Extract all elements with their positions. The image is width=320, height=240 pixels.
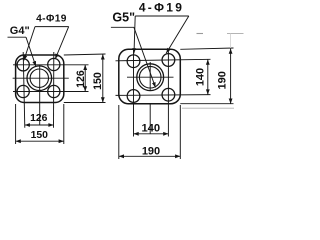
central bore inner circle [30, 69, 48, 87]
faint catalog table rule vertical (right, above 190 dim) [230, 34, 232, 49]
svg-text:190: 190 [142, 146, 160, 158]
extension line bottom edge right to 150 dim [64, 102, 106, 104]
centerline hole row bottom (right flange) [116, 94, 211, 97]
leader to top-left hole [134, 16, 135, 53]
bolt hole bottom-left (right flange) [127, 90, 140, 103]
svg-text:140: 140 [141, 123, 160, 135]
faint catalog table rule horizontal (bottom right) [182, 107, 234, 109]
leader to top-right hole [55, 27, 68, 59]
extension line left edge down to 150 dim [15, 104, 17, 144]
central bore inner circle [139, 66, 161, 88]
dim line 190 vertical (right flange), text at left [230, 49, 232, 104]
svg-text:150: 150 [31, 130, 49, 141]
central centerline vertical, extends down to bottom 126 dim [39, 65, 41, 126]
dim line 126 vertical (left flange) with arrows, text at left [84, 65, 86, 92]
svg-text:G5": G5" [112, 11, 135, 25]
central centerline horizontal (pokes past both edges) [13, 77, 69, 79]
extension line top edge right to 150 dim [64, 54, 106, 55]
centerline hole column right (right flange) [167, 51, 169, 137]
dim line 150 bottom (left flange) [16, 140, 64, 142]
extension line left edge down to 190 dim [118, 105, 120, 159]
bolt hole bottom-right (right flange) [162, 88, 175, 101]
extension line right edge down to 150 dim [63, 104, 65, 144]
bolt hole top-left (left flange) [17, 59, 29, 71]
dim line 190 bottom (right flange) [119, 155, 181, 157]
svg-text:150: 150 [92, 72, 104, 90]
faint catalog table rule horizontal (top right) [227, 33, 244, 35]
svg-text:4-Φ19: 4-Φ19 [36, 14, 67, 25]
central bore outer circle (G4 thread) [27, 66, 52, 91]
leader G4 to central bore edge [26, 37, 36, 66]
central centerline horizontal (right flange) [127, 76, 174, 78]
centerline hole column right (left flange) [53, 52, 55, 128]
dim line 150 vertical (left flange) with arrows, text at left [102, 54, 104, 102]
label underline G4 [8, 36, 27, 38]
bolt hole top-left (right flange) [127, 55, 140, 68]
centerline hole row top (left flange), extends right to 126 dim [13, 64, 89, 66]
svg-text:190: 190 [217, 71, 229, 89]
leader to top-right hole [166, 16, 189, 53]
label underline 4-PHI19 (right) [135, 15, 189, 17]
leader to top-left hole [24, 27, 35, 61]
dim line 126 bottom (left flange) [25, 124, 54, 126]
svg-text:G4": G4" [10, 25, 30, 37]
extension line right edge down to 190 dim [179, 105, 181, 159]
label underline G5 [111, 26, 134, 28]
centerline hole row top (right flange), extends right to 140 dim [116, 59, 211, 61]
bolt hole bottom-left (left flange) [17, 85, 29, 97]
svg-text:4-Φ19: 4-Φ19 [139, 1, 184, 15]
extension line top edge right to 190 dim [180, 48, 233, 49]
extension line bottom edge right to 190 dim [180, 103, 233, 105]
label underline 4-PHI19 (left) [35, 26, 69, 28]
centerline hole column left (right flange), extends to bottom 140 dim [133, 51, 135, 137]
svg-text:126: 126 [75, 70, 87, 88]
flange body outline (right, G5 flange) [119, 49, 181, 103]
dim line 140 vertical (right flange), text at left [207, 60, 209, 95]
centerline hole row bottom (left flange) [13, 91, 89, 93]
bolt hole bottom-right (left flange) [48, 85, 60, 97]
central centerline vertical, extends down to bottom 140 dim [149, 62, 151, 91]
leader G5 into central bore [134, 27, 156, 87]
svg-text:140: 140 [195, 68, 207, 86]
flange body outline (left, G4 flange) [16, 55, 64, 103]
central bore outer circle (G5 thread) [137, 64, 164, 91]
bolt hole top-right (right flange) [162, 54, 175, 67]
centerline hole column left (left flange), extends to bottom 126 dim [23, 52, 25, 128]
dim line 140 bottom (right flange) [134, 133, 169, 135]
bolt hole top-right (left flange) [48, 58, 60, 70]
svg-text:126: 126 [30, 113, 48, 124]
